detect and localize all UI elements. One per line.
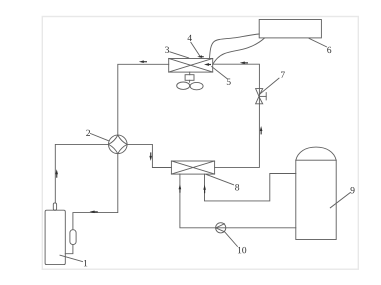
heat exchanger 3 (finned coil with X) xyxy=(169,59,213,73)
hose upper: HX3 top to unit 6 xyxy=(210,34,260,58)
flow arrow up on pump riser to HX8 xyxy=(179,184,182,192)
circulation pump 10 xyxy=(216,223,226,233)
wire: accumulator bottom to compressor xyxy=(65,245,73,254)
label 8 xyxy=(235,184,239,190)
label 10 leader xyxy=(224,232,237,247)
duct unit 6 xyxy=(259,20,321,38)
flow arrow left on HX3 return pipe xyxy=(240,62,248,65)
wire: pump line tank to HX8 bottom-left xyxy=(180,174,296,228)
label 1 xyxy=(84,260,87,266)
heat exchanger 8 (water HX with X) xyxy=(171,161,214,174)
label 1 leader xyxy=(60,255,83,261)
label 5 leader xyxy=(212,67,227,79)
accumulator (small vessel beside compressor) xyxy=(70,230,76,245)
label 7 xyxy=(281,72,285,78)
hose lower: HX3 right port to unit 6 xyxy=(213,38,265,64)
four-way valve 2 xyxy=(109,135,128,154)
label 2 xyxy=(86,130,90,136)
wire: valve 2 west to compressor top xyxy=(55,144,108,203)
flow arrow down on valve-to-HX8 drop xyxy=(149,152,152,161)
expansion valve 7 xyxy=(256,89,267,104)
label 3 xyxy=(165,47,169,53)
label 3 leader xyxy=(170,52,189,58)
wire: HX8 bottom-right to tank upper port xyxy=(205,174,296,201)
compressor top fitting xyxy=(53,203,56,210)
wire: valve 2 south to accumulator top xyxy=(73,154,118,230)
label 4 leader xyxy=(191,42,200,55)
flow arrow on HX3 top edge (item 4) xyxy=(197,55,204,58)
fan motor box under HX3 xyxy=(185,72,194,82)
label 4 xyxy=(187,35,191,41)
flow arrow up on compressor discharge riser xyxy=(55,169,58,177)
label 6 leader xyxy=(309,38,326,46)
label 5 xyxy=(227,79,231,85)
flow arrow left on suction return run xyxy=(90,211,98,214)
label 9 xyxy=(351,187,355,193)
fan blade right xyxy=(190,82,203,89)
flow arrow up on HX8 outlet drop xyxy=(203,185,206,193)
label 9 leader xyxy=(330,193,350,208)
wire: valve 2 east to HX8 left xyxy=(127,144,171,167)
fan blade left xyxy=(177,82,190,89)
label 7 leader xyxy=(261,78,280,93)
label 6 xyxy=(327,47,331,53)
compressor 1 xyxy=(45,210,65,264)
label 2 leader xyxy=(91,134,109,141)
label 8 leader xyxy=(206,174,234,185)
flow arrow at HX3 right port (item 5) xyxy=(204,63,211,66)
wire: HX3 left port to riser xyxy=(118,64,169,135)
flow arrow up below valve 7 xyxy=(260,126,263,134)
water tank 9 xyxy=(296,147,336,239)
label 10 xyxy=(238,247,246,253)
wire: HX8 right up through valve 7 to HX3 right xyxy=(213,64,260,167)
flow arrow left on HX3 feed pipe xyxy=(139,60,147,63)
